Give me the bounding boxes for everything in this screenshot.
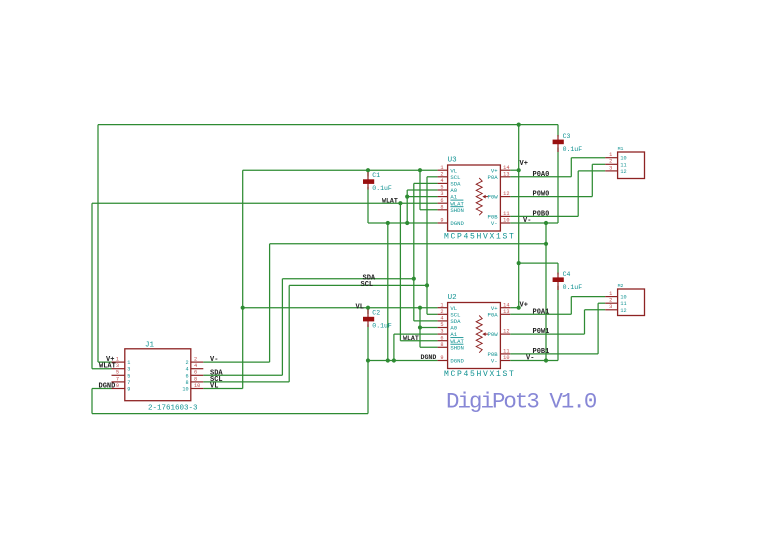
svg-text:1: 1 (609, 152, 612, 158)
wire DGND (387.8,223)-(387.8,360.5) (387, 223, 389, 361)
svg-text:P0A: P0A (488, 311, 499, 318)
svg-text:DGND: DGND (450, 358, 464, 365)
svg-text:7: 7 (116, 376, 119, 382)
wire V- (510.2,223)-(558,223) (510, 222, 558, 224)
capacitor C4 0.1uF (553, 271, 583, 291)
wire SCL (289.2,285.4)-(427,285.4) (289, 284, 427, 286)
wire WLAT (92,203.2)-(437.6,203.2) (92, 202, 438, 204)
wire DGND (368,324.3)-(368,360.5) (367, 324, 369, 360)
svg-text:WLAT: WLAT (382, 198, 398, 205)
wire P0W1 (584.5,309.8)-(605.2,309.8) (585, 309, 606, 311)
svg-text:SHDN: SHDN (450, 207, 463, 214)
wire DGND (407.2,190)-(437.6,190) (407, 189, 437, 191)
svg-text:3: 3 (127, 367, 130, 373)
svg-text:9: 9 (127, 387, 130, 393)
wire WLAT (400.4,340.7)-(437.6,340.7) (400, 340, 437, 342)
wire V- (269.6,243.8)-(546,243.8) (270, 243, 546, 245)
svg-text:12: 12 (620, 169, 626, 175)
svg-text:2: 2 (609, 159, 612, 165)
svg-text:P0W0: P0W0 (533, 191, 550, 199)
svg-text:P0W: P0W (488, 194, 499, 201)
svg-text:DGND: DGND (421, 354, 437, 361)
svg-text:1: 1 (116, 357, 119, 363)
wire SCL (289.2,381.9)-(289.2,285.4) (288, 285, 290, 382)
svg-text:P0A: P0A (488, 174, 499, 181)
junction V- (546,243.8) (544, 242, 548, 246)
wire VL (420,170.2)-(420,209.8) (419, 170, 421, 210)
svg-text:8: 8 (185, 380, 188, 386)
junction VL (242.7,307.7) (241, 306, 245, 310)
junction VL (368,170.2) (366, 168, 370, 172)
svg-text:SHDN: SHDN (450, 344, 463, 351)
svg-text:6: 6 (185, 373, 188, 379)
wire DGND (407.2,190)-(407.2,223) (406, 190, 408, 223)
svg-text:5: 5 (440, 185, 443, 191)
wire DGND (92,413.6)-(368,413.6) (92, 413, 368, 415)
wire WLAT (400.4,203.2)-(400.4,340.7) (399, 203, 401, 341)
svg-text:12: 12 (503, 191, 509, 197)
svg-text:0.1uF: 0.1uF (563, 146, 583, 153)
svg-text:MCP45HVX1ST: MCP45HVX1ST (444, 233, 516, 242)
svg-text:9: 9 (440, 355, 443, 361)
wire P0W0 (510.2,196.6)-(592.3,196.6) (510, 196, 592, 198)
junction VL (420,170.2) (418, 168, 422, 172)
svg-text:V+: V+ (520, 301, 528, 309)
svg-text:9: 9 (440, 218, 443, 224)
wire WLAT (111.5,368.7)-(92,368.7) (92, 368, 112, 370)
wire P0W1 (584.5,334.1)-(584.5,309.8) (584, 310, 586, 334)
svg-text:8: 8 (194, 376, 197, 382)
wire P0W0 (592.3,196.6)-(592.3,164.3) (591, 164, 593, 196)
wire V- (558,147.5)-(558,223) (557, 148, 559, 224)
wire VL (242.7,170.2)-(242.7,388.5) (242, 170, 244, 388)
svg-text:3: 3 (116, 363, 119, 369)
wire V- (558,263.1)-(558,274.5) (557, 263, 559, 274)
wire SDA (203.3,375.3)-(282.4,375.3) (203, 374, 282, 376)
wire DGND (92,388.5)-(92,413.6) (91, 389, 93, 414)
svg-text:9: 9 (116, 383, 119, 389)
wire VL (242.7,307.7)-(437.6,307.7) (243, 307, 438, 309)
wire V+ (510.2,307.7)-(518.7,307.7) (510, 307, 519, 309)
svg-text:6: 6 (440, 335, 443, 341)
svg-text:3: 3 (609, 165, 612, 171)
junction SDA (413.8,278.7) (412, 277, 416, 281)
wire V- (510.2,360.5)-(558,360.5) (510, 360, 558, 362)
svg-text:0.1uF: 0.1uF (372, 185, 392, 192)
wire V+ (518.7,124.6)-(518.7,307.7) (518, 125, 520, 308)
svg-text:MCP45HVX1ST: MCP45HVX1ST (444, 370, 516, 379)
svg-text:DGND: DGND (450, 220, 464, 227)
wire V- (546,223)-(546,360.5) (545, 223, 547, 361)
svg-text:V-: V- (491, 220, 498, 227)
junction DGND (407.2,223) (405, 221, 409, 225)
svg-text:11: 11 (620, 301, 626, 307)
svg-text:2: 2 (440, 171, 443, 177)
svg-text:5: 5 (116, 370, 119, 376)
junction VL (368,307.7) (366, 306, 370, 310)
wire SCL (427,176.8)-(427,314.3) (426, 177, 428, 314)
svg-text:SCL: SCL (361, 281, 374, 289)
junction DGND (407.2,196.6) (405, 195, 409, 199)
svg-text:10: 10 (503, 355, 509, 361)
wire V+ (98,124.6)-(558,124.6) (98, 124, 558, 126)
svg-text:DGND: DGND (99, 382, 116, 390)
svg-text:13: 13 (503, 309, 509, 315)
wire SCL (427,314.3)-(437.6,314.3) (427, 313, 438, 315)
svg-text:4: 4 (185, 367, 188, 373)
svg-text:2-1761603-3: 2-1761603-3 (148, 404, 198, 412)
svg-text:V-: V- (523, 217, 531, 225)
svg-text:P0A0: P0A0 (533, 171, 550, 179)
svg-text:12: 12 (503, 329, 509, 335)
wire SDA (413.8,320.9)-(437.6,320.9) (414, 320, 438, 322)
svg-text:M2: M2 (618, 283, 624, 289)
wire P0B0 (578.2,170.9)-(605.2,170.9) (578, 170, 605, 172)
capacitor C1 0.1uF (363, 172, 392, 192)
capacitor C2 0.1uF (363, 310, 392, 330)
wire VL (420,347.3)-(437.6,347.3) (420, 346, 438, 348)
IC U2 MCP45HVX1ST digital potentiometer (438, 294, 516, 379)
svg-text:14: 14 (503, 302, 509, 308)
svg-text:5: 5 (127, 373, 130, 379)
wire DGND (393.9,334.1)-(393.9,360.5) (393, 334, 395, 360)
svg-text:10: 10 (182, 387, 188, 393)
svg-text:4: 4 (440, 178, 443, 184)
wire P0A0 (510.2,176.8)-(571.3,176.8) (510, 176, 571, 178)
junction DGND (387.8,360.5) (386, 358, 390, 362)
junction WLAT (400.4,203.2) (398, 201, 402, 205)
connector M1 pins 10-12 (605, 146, 644, 179)
svg-text:P0W1: P0W1 (533, 328, 550, 336)
svg-text:12: 12 (620, 308, 626, 314)
svg-text:U2: U2 (448, 294, 457, 302)
wire SDA (413.8,183.4)-(413.8,320.9) (413, 183, 415, 321)
svg-text:J1: J1 (145, 342, 155, 350)
svg-text:10: 10 (620, 295, 626, 301)
junction V- (546,360.5) (544, 358, 548, 362)
svg-text:10: 10 (503, 218, 509, 224)
connector M2 pins 10-12 (605, 283, 644, 316)
wire SDA (413.8,183.4)-(437.6,183.4) (414, 182, 438, 184)
wire VL (420,209.8)-(437.6,209.8) (420, 209, 438, 211)
IC U3 MCP45HVX1ST digital potentiometer (438, 157, 516, 242)
wire V+ (510.2,170.2)-(518.7,170.2) (510, 169, 519, 171)
svg-text:1: 1 (609, 291, 612, 297)
wire DGND (368,223)-(437.6,223) (368, 222, 438, 224)
wire DGND (407.2,196.6)-(437.6,196.6) (407, 196, 437, 198)
svg-text:M1: M1 (618, 146, 624, 152)
svg-text:V-: V- (526, 355, 534, 363)
svg-text:13: 13 (503, 171, 509, 177)
svg-text:V-: V- (210, 356, 218, 364)
svg-text:14: 14 (503, 165, 509, 171)
wire SCL (203.3,381.9)-(289.2,381.9) (203, 381, 289, 383)
wire V+ (98,362.1)-(111.5,362.1) (98, 361, 112, 363)
svg-text:U3: U3 (448, 157, 458, 165)
svg-text:4: 4 (440, 316, 443, 322)
svg-text:VL: VL (356, 303, 364, 311)
junction V+ (518.7,170.2) (517, 168, 521, 172)
svg-text:VL: VL (210, 383, 218, 391)
svg-text:1: 1 (440, 302, 443, 308)
wire P0W0 (592.3,164.3)-(605.2,164.3) (592, 163, 605, 165)
wire SDA (282.4,375.3)-(282.4,278.7) (281, 279, 283, 376)
svg-text:3: 3 (440, 191, 443, 197)
junction DGND (368,360.5) (366, 358, 370, 362)
junction V+ (518.7,263.1) (517, 261, 521, 265)
svg-text:2: 2 (609, 298, 612, 304)
wire DGND (111.5,388.5)-(92,388.5) (92, 388, 112, 390)
junction SCL (427,285.4) (425, 283, 429, 287)
svg-text:DigiPot3 V1.0: DigiPot3 V1.0 (446, 388, 597, 414)
junction V+ (518.7,124.6) (517, 123, 521, 127)
wire P0B1 (510.2,353.9)-(598.1,353.9) (510, 353, 598, 355)
junction VL (420,327.5) (418, 325, 422, 329)
wire V- (558,124.6)-(558,136.5) (557, 125, 559, 137)
svg-text:V+: V+ (520, 160, 528, 168)
svg-text:0.1uF: 0.1uF (372, 322, 392, 329)
connector J1 2-1761603-3 (112, 342, 204, 413)
wire DGND (368,360.5)-(368,413.6) (367, 361, 369, 414)
svg-text:1: 1 (127, 360, 130, 366)
svg-text:P0B0: P0B0 (533, 210, 550, 218)
wire P0A0 (571.3,176.8)-(571.3,157.7) (570, 158, 572, 177)
wire V+ (518.7,263.1)-(558,263.1) (519, 262, 558, 264)
svg-text:1: 1 (440, 165, 443, 171)
wire V+ (98,124.6)-(98,362.1) (97, 125, 99, 363)
svg-text:P0W: P0W (488, 331, 499, 338)
svg-text:10: 10 (620, 156, 626, 162)
svg-text:2: 2 (194, 357, 197, 363)
svg-text:10: 10 (194, 383, 200, 389)
svg-text:C1: C1 (372, 172, 380, 179)
svg-text:WLAT: WLAT (99, 363, 116, 371)
svg-text:6: 6 (440, 198, 443, 204)
wire P0A0 (571.3,157.7)-(605.2,157.7) (571, 157, 605, 159)
wire VL (203.3,388.5)-(242.7,388.5) (203, 388, 242, 390)
wire VL (368,307.7)-(368,314) (367, 308, 369, 314)
svg-text:P0A1: P0A1 (533, 308, 550, 316)
svg-text:2: 2 (185, 360, 188, 366)
junction DGND (393.9,360.5) (392, 358, 396, 362)
wire P0A1 (510.2,314.3)-(571.3,314.3) (510, 313, 571, 315)
svg-text:C2: C2 (372, 310, 380, 317)
wire P0W1 (510.2,334.1)-(584.5,334.1) (510, 333, 584, 335)
wire P0B1 (598.1,353.9)-(598.1,303.2) (597, 303, 599, 354)
junction DGND (387.8,223) (386, 221, 390, 225)
wire DGND (368,360.5)-(437.6,360.5) (368, 360, 438, 362)
junction V- (546,223) (544, 221, 548, 225)
wire VL (242.7,170.2)-(437.6,170.2) (243, 169, 438, 171)
svg-text:V-: V- (491, 358, 498, 365)
svg-text:8: 8 (440, 204, 443, 210)
svg-text:C4: C4 (563, 271, 571, 278)
wire VL (420,307.7)-(420,347.3) (419, 308, 421, 348)
svg-text:11: 11 (503, 349, 509, 355)
capacitor C3 0.1uF (553, 133, 583, 153)
svg-text:6: 6 (194, 370, 197, 376)
wire WLAT (92,368.7)-(92,203.2) (91, 203, 93, 369)
svg-text:7: 7 (127, 380, 130, 386)
svg-text:2: 2 (440, 309, 443, 315)
wire VL (420,327.5)-(437.6,327.5) (420, 327, 438, 329)
junction VL (420,307.7) (418, 306, 422, 310)
wire V- (269.6,243.8)-(269.6,362.1) (269, 244, 271, 362)
wire P0B0 (578.2,216.4)-(578.2,170.9) (577, 171, 579, 217)
wire P0B1 (598.1,303.2)-(605.2,303.2) (598, 302, 605, 304)
svg-text:C3: C3 (563, 133, 571, 140)
svg-text:WLAT: WLAT (403, 335, 419, 342)
svg-text:P0B1: P0B1 (533, 348, 550, 356)
wire DGND (368,186.8)-(368,223) (367, 187, 369, 223)
svg-text:3: 3 (609, 304, 612, 310)
svg-text:11: 11 (620, 162, 626, 168)
wire V- (203.3,362.1)-(269.6,362.1) (203, 361, 269, 363)
svg-text:3: 3 (440, 329, 443, 335)
wire SCL (427,176.8)-(437.6,176.8) (427, 176, 438, 178)
svg-text:11: 11 (503, 211, 509, 217)
svg-text:4: 4 (194, 363, 197, 369)
wire VL (368,170.2)-(368,176.5) (367, 170, 369, 176)
wire P0A1 (571.3,314.3)-(571.3,296.6) (570, 297, 572, 315)
wire DGND (393.9,334.1)-(437.6,334.1) (394, 333, 438, 335)
svg-text:8: 8 (440, 342, 443, 348)
junction V+ (518.7,307.7) (517, 306, 521, 310)
wire P0A1 (571.3,296.6)-(605.2,296.6) (571, 296, 605, 298)
wire SDA (282.4,278.7)-(413.8,278.7) (282, 278, 413, 280)
svg-text:5: 5 (440, 322, 443, 328)
wire P0B0 (510.2,216.4)-(578.2,216.4) (510, 215, 578, 217)
wire V- (558,285.7)-(558,360.5) (557, 286, 559, 361)
svg-text:0.1uF: 0.1uF (563, 284, 583, 291)
